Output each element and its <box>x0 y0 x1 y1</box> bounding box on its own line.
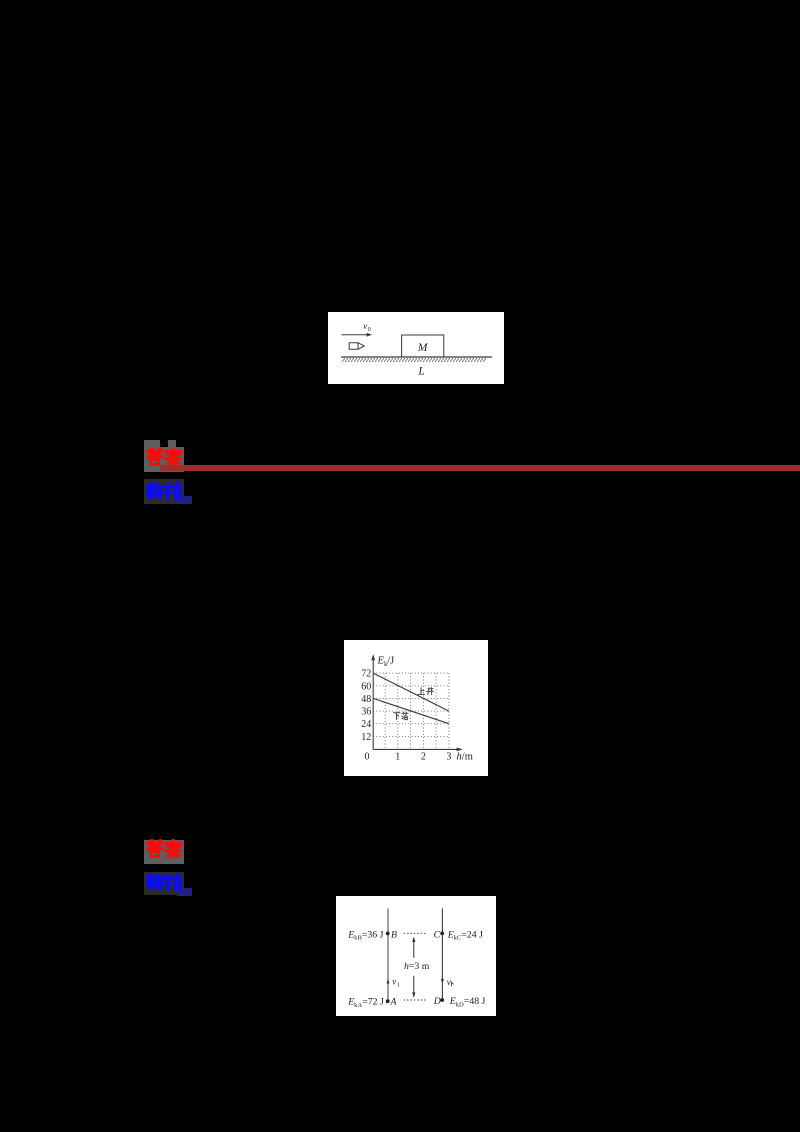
svg-text:v: v <box>392 976 396 986</box>
figure 3: vertical throw A-B and fall C-D diagram <box>336 896 496 1016</box>
h arrow lower segment (points down) <box>413 976 415 994</box>
right vertical path line <box>441 908 443 1000</box>
svg-text:48: 48 <box>361 694 371 705</box>
navy tab 2 <box>177 888 192 896</box>
red answer text 答案 (2) <box>145 839 182 861</box>
svg-text:60: 60 <box>361 681 371 692</box>
lower data line (falling) 48 to 24 <box>373 698 449 723</box>
svg-text:0: 0 <box>364 751 369 762</box>
svg-text:EkC=24 J: EkC=24 J <box>447 929 483 941</box>
svg-text:EkB=36 J: EkB=36 J <box>347 929 383 941</box>
svg-text:EkA=72 J: EkA=72 J <box>347 996 384 1008</box>
svg-text:v: v <box>363 320 367 330</box>
dotted horizontal grid <box>373 673 449 736</box>
red answer chip 2 <box>144 840 184 864</box>
svg-text:B: B <box>391 929 397 940</box>
blue analysis text 解析 (2) <box>145 873 182 895</box>
down arrowhead on right line (v down) <box>441 979 444 984</box>
h arrow upper segment (points up) <box>413 940 415 957</box>
texts <box>347 929 485 1008</box>
ground hatching <box>342 358 486 362</box>
blue analysis chip 2 <box>144 872 184 895</box>
figure 1: bullet fired at block M on ground <box>328 312 504 384</box>
svg-text:C: C <box>433 929 440 940</box>
velocity arrow <box>341 333 366 335</box>
svg-text:A: A <box>389 996 397 1007</box>
svg-text:h=3 m: h=3 m <box>404 961 430 972</box>
axis label Ek/J <box>376 655 394 667</box>
dotted vertical grid <box>385 673 449 749</box>
x axis <box>373 748 458 750</box>
svg-text:M: M <box>417 341 429 353</box>
label v0 <box>363 320 370 332</box>
dotted line A to D <box>404 999 427 1001</box>
navy tab 1 <box>177 496 192 504</box>
blue analysis chip 1 (dark box) <box>144 479 184 504</box>
svg-text:1: 1 <box>395 751 400 762</box>
dotted line B to C <box>404 932 427 934</box>
svg-text:EkD=48 J: EkD=48 J <box>449 996 486 1008</box>
svg-text:v: v <box>447 977 451 987</box>
svg-text:D: D <box>433 996 441 1007</box>
long dark red divider line <box>160 465 800 471</box>
svg-text:/m: /m <box>462 751 473 762</box>
y axis <box>372 657 374 749</box>
svg-text:1: 1 <box>397 982 400 988</box>
blue analysis text 解析 <box>145 482 182 504</box>
ground line <box>341 356 492 358</box>
svg-text:24: 24 <box>361 719 371 730</box>
red answer text 答案 <box>145 446 182 468</box>
up arrowhead on left line (v1) <box>386 978 389 983</box>
svg-text:36: 36 <box>361 706 371 717</box>
red answer chip 1 (gray box) <box>144 447 184 472</box>
axis label h/m <box>456 751 472 762</box>
svg-text:/J: /J <box>387 655 394 666</box>
figure 2: Ek/J vs h/m chart <box>344 640 488 776</box>
svg-text:3: 3 <box>446 751 451 762</box>
label 下落 <box>393 712 408 719</box>
block M <box>401 335 443 357</box>
y tick labels <box>361 668 371 762</box>
svg-text:12: 12 <box>361 732 371 743</box>
svg-text:0: 0 <box>367 326 370 333</box>
svg-text:72: 72 <box>361 668 371 679</box>
glyph defs for CJK pseudo-characters <box>0 0 1 1</box>
bullet <box>349 342 364 349</box>
point A dot <box>386 999 390 1003</box>
label 上升 <box>418 687 433 694</box>
svg-text:2: 2 <box>421 751 426 762</box>
point D dot <box>440 998 444 1002</box>
point B dot <box>386 931 390 935</box>
upper data line (rising) 72 to 36 <box>373 673 449 711</box>
x tick labels <box>395 751 451 762</box>
svg-text:L: L <box>417 365 424 377</box>
point C dot <box>440 931 444 935</box>
left vertical path line <box>387 908 389 1001</box>
